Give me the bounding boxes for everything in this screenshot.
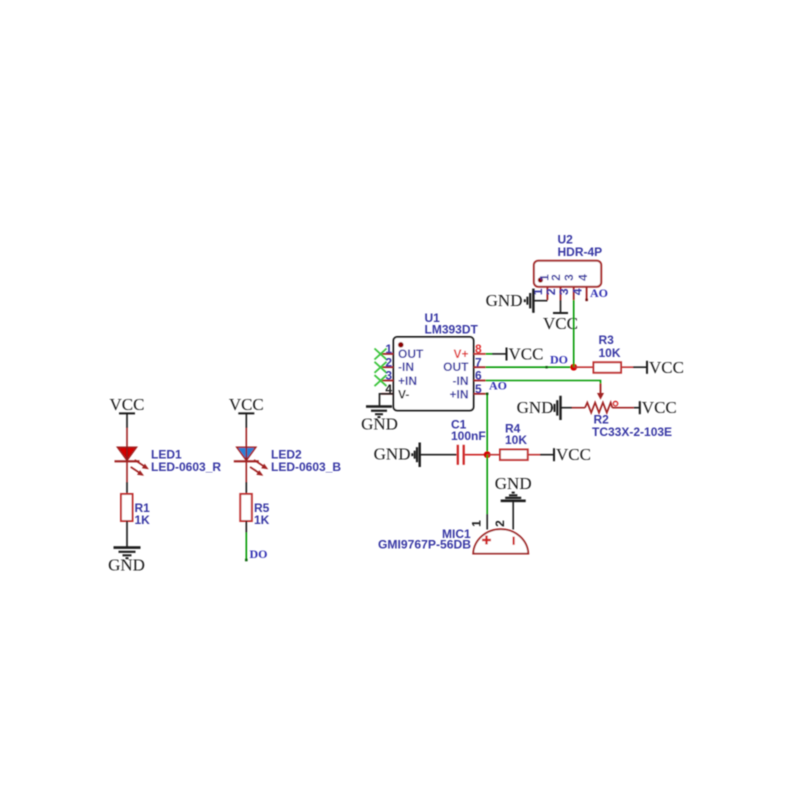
svg-text:3: 3 — [557, 288, 571, 295]
wiper arrow of R2 — [597, 384, 604, 400]
svg-text:10K: 10K — [599, 346, 621, 360]
svg-text:1K: 1K — [254, 513, 270, 527]
wire R4 to VCC — [528, 454, 554, 456]
svg-text:2: 2 — [544, 288, 558, 295]
no-connect cross pin 3 — [375, 375, 387, 386]
svg-text:V-: V- — [398, 388, 409, 402]
wire GND to MIC1 pin2 — [512, 501, 514, 530]
svg-text:5: 5 — [475, 382, 482, 396]
LED LED1 — [115, 447, 149, 475]
pin 2 stub (U2) — [560, 287, 562, 300]
microphone MIC1 body — [473, 529, 528, 553]
svg-text:-IN: -IN — [453, 374, 469, 388]
pin 2 stub (U1 -IN) — [381, 366, 393, 368]
svg-text:DO: DO — [550, 353, 568, 367]
ground symbol (U1 pin4) — [366, 407, 392, 418]
svg-text:VCC: VCC — [509, 345, 544, 364]
pin 3 stub (U1 +IN) — [381, 380, 393, 382]
wire R2 right to VCC — [612, 407, 640, 409]
wire VCC to LED2 anode — [245, 413, 247, 447]
svg-text:GND: GND — [486, 291, 523, 310]
wire junction to R3 — [574, 366, 594, 368]
MIC1 minus mark — [512, 537, 514, 545]
svg-text:-IN: -IN — [398, 360, 414, 374]
junction C1/R4/AO node — [484, 451, 491, 458]
svg-text:3: 3 — [385, 369, 392, 383]
ground symbol sideways (C1) — [412, 443, 419, 468]
power symbol VCC (U2 pin2) — [543, 313, 578, 333]
power symbol VCC (R2) — [640, 398, 677, 417]
wire U1 pin6 to R2 wiper — [486, 381, 601, 385]
svg-text:100nF: 100nF — [451, 429, 486, 443]
R2 wiper terminal circle — [613, 402, 617, 406]
svg-text:8: 8 — [475, 342, 482, 356]
svg-text:10K: 10K — [505, 433, 527, 447]
svg-text:GND: GND — [108, 556, 145, 575]
svg-text:OUT: OUT — [443, 360, 469, 374]
pin 1 stub (U2) — [546, 287, 548, 300]
svg-text:7: 7 — [475, 355, 482, 369]
capacitor C1 — [458, 445, 464, 465]
resistor R5 — [240, 494, 252, 521]
svg-text:1: 1 — [470, 520, 484, 527]
svg-text:GND: GND — [361, 415, 398, 434]
svg-text:1K: 1K — [135, 513, 151, 527]
svg-text:VCC: VCC — [543, 314, 578, 333]
power symbol VCC (R3) — [647, 358, 684, 377]
ground symbol sideways (R2) — [552, 396, 561, 420]
wire U2 pin1 to GND — [534, 300, 547, 302]
svg-text:4: 4 — [570, 288, 584, 295]
wire U1 pin5 to C1 junction — [486, 393, 489, 455]
svg-text:OUT: OUT — [398, 347, 424, 361]
svg-text:2: 2 — [549, 274, 563, 281]
wire LED2 cathode to R5 — [245, 461, 247, 494]
pin 1 stub (U1 OUT) — [381, 353, 393, 355]
svg-text:AO: AO — [590, 286, 608, 300]
wire junction to R4 — [487, 454, 500, 456]
wire U2 pin2 to VCC — [560, 300, 562, 313]
svg-text:GND: GND — [495, 474, 532, 493]
wire R1 to GND — [126, 521, 128, 547]
junction DO node — [570, 364, 577, 371]
wire LED1 cathode to R1 — [126, 461, 128, 494]
svg-text:2: 2 — [493, 520, 507, 527]
no-connect cross pin 2 — [375, 362, 387, 373]
power symbol VCC (R4) — [554, 445, 591, 464]
svg-text:GMI9767P-56DB: GMI9767P-56DB — [378, 538, 471, 552]
wire U1 pin4 to GND — [380, 394, 394, 407]
svg-text:VCC: VCC — [642, 398, 677, 417]
pin 8 stub (U1 V+) — [474, 353, 486, 355]
pin 3 stub (U2) — [573, 287, 575, 300]
wire GND to R2 left — [561, 407, 586, 409]
ground symbol (LED1 branch) — [114, 548, 141, 559]
svg-text:LM393DT: LM393DT — [425, 323, 479, 337]
pin 6 stub (U1 -IN) — [474, 380, 486, 382]
resistor R3 — [594, 362, 622, 372]
svg-text:GND: GND — [517, 398, 554, 417]
power symbol VCC (U1 pin8) — [507, 345, 544, 364]
pin 7 stub (U1 OUT) — [474, 366, 486, 368]
power symbol VCC (LED2 branch) — [229, 395, 264, 414]
svg-text:V+: V+ — [453, 347, 468, 361]
wire VCC to LED1 anode — [126, 413, 128, 447]
potentiometer R2 zigzag — [585, 403, 612, 413]
resistor R4 — [500, 450, 528, 460]
svg-text:3: 3 — [562, 274, 576, 281]
svg-text:GND: GND — [374, 445, 411, 464]
wire U1 pin7 to DO junction — [486, 366, 574, 368]
svg-text:6: 6 — [475, 369, 482, 383]
power symbol VCC (LED1 branch) — [110, 395, 145, 414]
pin 5 stub (U1 +IN) — [474, 393, 486, 395]
svg-text:LED-0603_B: LED-0603_B — [271, 460, 341, 474]
svg-text:VCC: VCC — [556, 445, 591, 464]
svg-text:2: 2 — [385, 355, 392, 369]
wire R3 to VCC — [621, 366, 647, 368]
svg-text:VCC: VCC — [110, 395, 145, 414]
MIC1 plus mark — [482, 536, 491, 545]
wire U2 pin3 to DO junction — [573, 300, 575, 367]
wire junction to MIC1 pin1 — [486, 455, 488, 530]
op-amp U1 body — [394, 337, 474, 411]
svg-text:+IN: +IN — [449, 388, 468, 402]
LED LED2 — [234, 447, 268, 475]
svg-text:+IN: +IN — [398, 374, 417, 388]
resistor R1 — [121, 494, 133, 521]
pin 4 stub (U2) — [585, 287, 588, 301]
wire C1 to junction — [465, 454, 487, 456]
svg-text:R3: R3 — [599, 333, 615, 347]
no-connect cross pin 1 — [375, 349, 387, 360]
svg-text:TC33X-2-103E: TC33X-2-103E — [592, 425, 672, 439]
pin 4 stub (U1 V-) — [381, 393, 393, 395]
svg-text:VCC: VCC — [649, 358, 684, 377]
svg-text:LED-0603_R: LED-0603_R — [151, 460, 221, 474]
svg-text:VCC: VCC — [229, 395, 264, 414]
svg-text:1: 1 — [385, 342, 392, 356]
connector U2 body — [534, 261, 601, 287]
ground symbol inverted (MIC1 pin2) — [501, 493, 526, 501]
svg-text:DO: DO — [250, 547, 268, 561]
wire R5 to net DO — [245, 521, 248, 561]
svg-text:AO: AO — [489, 379, 507, 393]
svg-text:4: 4 — [576, 274, 590, 281]
ground symbol sideways (U2 pin1) — [525, 289, 534, 313]
wire GND to C1 — [420, 454, 457, 456]
wire U1 pin8 to VCC — [486, 353, 507, 355]
svg-text:HDR-4P: HDR-4P — [558, 245, 603, 259]
